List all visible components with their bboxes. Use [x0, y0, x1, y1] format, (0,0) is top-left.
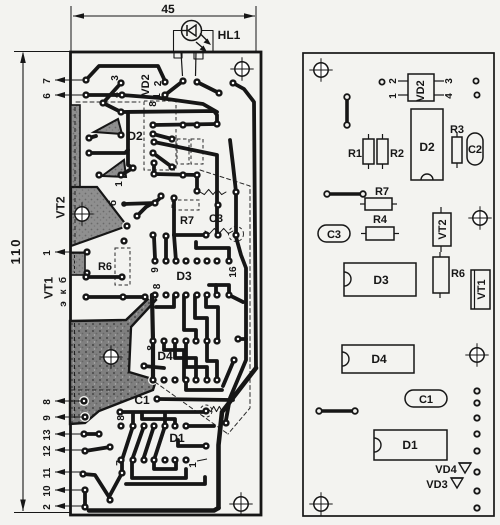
pin arrow 8	[55, 398, 82, 404]
component C1 right	[405, 390, 447, 407]
wire diag to pad	[103, 103, 121, 112]
pin arrow 6	[55, 92, 84, 98]
pour pad clearances	[79, 396, 89, 406]
wire long h111	[121, 111, 217, 124]
wire pin11	[83, 474, 109, 497]
copper pour big (bottom left)	[70, 295, 156, 424]
diode VD3 symbol	[451, 478, 463, 488]
LED HL1 symbol	[182, 21, 212, 53]
svg-text:VT1: VT1	[476, 279, 488, 299]
pads pins 8-2	[81, 399, 113, 510]
dashed edge line 2	[155, 382, 228, 434]
dimension line 45 (top width)	[71, 6, 256, 51]
wire D3 row top	[197, 248, 229, 258]
pin arrow 12	[55, 447, 83, 453]
mount hole crosshair RB bl	[309, 492, 332, 515]
wire D4 s2	[175, 341, 196, 380]
component R1	[363, 139, 374, 164]
svg-text:1: 1	[42, 250, 53, 256]
wire diag V2b	[223, 360, 234, 386]
left board outline	[71, 52, 262, 515]
pads D2 left col	[151, 123, 157, 177]
component VT1 right	[471, 270, 490, 309]
pads D4 row2	[151, 378, 220, 383]
copper triangle 1	[94, 119, 122, 134]
svg-text:VT2: VT2	[54, 196, 68, 218]
component VD2	[408, 74, 434, 101]
svg-text:4: 4	[444, 93, 455, 99]
pads D3 pins 1-8	[153, 293, 232, 298]
wire D3 feed a	[194, 242, 198, 248]
wire row236	[174, 233, 206, 237]
mount hole crosshair RB tl	[309, 58, 332, 81]
dashed outline D2	[144, 101, 176, 170]
mount hole crosshair (big pour)	[99, 345, 122, 368]
pads right column RB	[474, 388, 479, 393]
jumper wire bottom	[320, 409, 354, 413]
pads D1 row1	[119, 424, 189, 429]
wire top right corner	[233, 83, 256, 368]
mount hole crosshair RB r2	[465, 343, 488, 366]
zigzag link 1	[200, 189, 226, 194]
wire D1 right link	[186, 424, 214, 428]
copper pour VT2 area	[71, 187, 127, 246]
wire base b	[121, 201, 127, 207]
wire long diag	[154, 142, 217, 235]
svg-text:1: 1	[152, 93, 163, 99]
svg-text:12: 12	[42, 445, 53, 457]
wire D4 s3	[186, 341, 207, 380]
pads top right RB	[473, 78, 478, 83]
svg-text:VD2: VD2	[140, 74, 152, 95]
svg-text:R7: R7	[180, 215, 194, 227]
wire pin13	[84, 432, 99, 436]
svg-text:VT2: VT2	[437, 219, 449, 239]
svg-text:C3: C3	[327, 229, 341, 241]
pads D4 misc	[142, 364, 147, 369]
svg-text:3: 3	[444, 78, 455, 84]
component C2	[467, 133, 483, 165]
dashed circle C1	[200, 405, 212, 417]
jumper wire vertical	[345, 98, 349, 124]
zigzag link 3	[208, 406, 225, 411]
wire D1 pad link	[178, 440, 203, 446]
wire D4 below	[186, 380, 222, 390]
pads bottom left	[108, 471, 125, 503]
wire D3 s2	[184, 295, 196, 341]
svg-text:13: 13	[42, 429, 53, 441]
pin arrow 7	[55, 77, 84, 83]
wire diag D2b	[153, 153, 172, 167]
svg-text:45: 45	[161, 2, 175, 16]
svg-text:VD2: VD2	[415, 80, 427, 101]
wire VT1 k	[86, 295, 145, 299]
component R2	[377, 139, 388, 164]
component C3 right	[318, 225, 350, 242]
svg-text:э: э	[58, 301, 69, 307]
pads VT1 leads	[84, 275, 148, 300]
svg-text:7: 7	[42, 78, 53, 84]
component D4 right	[342, 345, 414, 373]
dashed edge line 1	[200, 170, 250, 434]
svg-text:11: 11	[42, 467, 53, 478]
component VT2 right	[433, 213, 451, 246]
svg-text:6: 6	[42, 93, 53, 99]
pads D1 out	[204, 421, 229, 449]
svg-text:R6: R6	[98, 261, 112, 273]
svg-text:10: 10	[42, 485, 53, 497]
pads top right	[217, 81, 236, 96]
wire D1 h3	[126, 477, 205, 484]
svg-text:VT1: VT1	[42, 277, 56, 299]
svg-text:D4: D4	[371, 352, 387, 366]
svg-text:HL1: HL1	[218, 28, 241, 42]
svg-text:2: 2	[42, 504, 53, 510]
svg-text:R2: R2	[390, 148, 404, 160]
pads HL1	[181, 79, 200, 85]
dashed outline R6	[115, 248, 130, 285]
svg-text:б: б	[108, 200, 119, 206]
pads D2 misc	[87, 133, 239, 195]
strip dashed overlay	[74, 107, 76, 244]
mount hole crosshair (bottom right)	[229, 492, 252, 515]
wire D4 s4	[207, 341, 217, 380]
wire V chain lower	[226, 237, 246, 420]
wire C1 top	[157, 399, 233, 400]
wire D1 diag	[109, 473, 122, 497]
wire D1 u1	[154, 460, 176, 469]
wire stub left	[89, 150, 128, 153]
svg-text:8: 8	[152, 283, 163, 289]
pads VD2 3 4	[119, 81, 125, 98]
wire diag D2a	[153, 134, 172, 139]
wire V chain upper	[230, 140, 236, 233]
wire D3 s5	[209, 285, 229, 295]
wire C1 bottom	[120, 410, 206, 414]
wire bottom bus	[89, 508, 219, 511]
wire VT1 b	[86, 275, 122, 279]
svg-text:C3: C3	[209, 213, 223, 225]
HL1 outline box	[174, 31, 214, 53]
wire pin6	[86, 95, 217, 112]
svg-text:1: 1	[188, 462, 199, 468]
HL1 lead wires	[181, 52, 183, 76]
svg-text:VD3: VD3	[426, 479, 447, 491]
svg-text:R7: R7	[375, 186, 389, 198]
wire D1 stub up a	[131, 413, 135, 426]
wire row125	[153, 124, 217, 125]
wire D1 stub up b	[163, 413, 167, 426]
wire pin12	[85, 447, 110, 451]
pin arrow 11	[55, 469, 81, 475]
wire drop236	[174, 235, 176, 261]
wire curve	[137, 197, 161, 216]
pads top mid	[101, 80, 168, 115]
pad VD2-2	[379, 79, 384, 84]
wire stub V2	[238, 337, 246, 341]
pin arrow 1	[55, 249, 87, 255]
pads D3 pins 9-16	[153, 259, 232, 264]
wire elbow x128	[128, 114, 133, 168]
wire D4 left lead	[144, 366, 164, 368]
pin arrow 13	[55, 431, 82, 437]
wire VD2 diag	[165, 81, 183, 95]
wire pin10-2	[83, 490, 87, 507]
wire pour column	[152, 295, 153, 380]
wire row175	[154, 174, 197, 191]
wire stub 153	[154, 237, 155, 258]
pads mid cluster	[85, 194, 177, 276]
wire D1 diag4	[154, 426, 165, 460]
pads D1 row2	[119, 458, 189, 463]
right board outline	[303, 53, 494, 516]
copper pour pad square	[71, 253, 85, 275]
svg-text:R1: R1	[348, 148, 362, 160]
svg-text:D2: D2	[127, 129, 143, 143]
component R3	[452, 137, 462, 163]
svg-text:D4: D4	[157, 349, 173, 363]
svg-text:1: 1	[114, 181, 125, 187]
component D3 right	[344, 263, 416, 296]
pin arrow 9	[55, 414, 83, 420]
wire VD2 pin3 diag	[103, 83, 121, 103]
svg-text:8: 8	[146, 345, 157, 351]
copper triangle 2	[102, 160, 126, 177]
pin arrow 10	[55, 487, 83, 493]
component D1 right	[374, 430, 447, 460]
wire D1 u2	[132, 460, 186, 478]
copper pour strip (left edge)	[71, 105, 80, 188]
wire D1 diag1	[122, 426, 133, 460]
dashed outline R7	[172, 200, 199, 210]
pads input 7 6	[84, 78, 89, 98]
svg-text:C1: C1	[419, 394, 433, 406]
wire R7 drop	[172, 198, 176, 235]
VD2 leads	[398, 80, 408, 82]
pads row236	[151, 203, 239, 239]
svg-text:C2: C2	[468, 144, 482, 156]
pin arrow 2	[55, 503, 83, 509]
svg-text:9: 9	[42, 415, 53, 421]
svg-text:D3: D3	[176, 269, 192, 283]
svg-text:D1: D1	[169, 431, 185, 445]
pour VT2 tip clearance	[122, 221, 132, 231]
wire right diagonal	[219, 368, 257, 508]
svg-text:16: 16	[228, 266, 239, 278]
wire D1 left1	[120, 460, 124, 472]
wire D3 s4	[206, 295, 218, 341]
svg-text:D2: D2	[419, 140, 435, 154]
svg-text:б: б	[58, 277, 69, 283]
wire D1 diag2	[132, 426, 144, 460]
wire pin7 arc	[86, 66, 165, 81]
mount hole crosshair RB r1	[468, 206, 491, 229]
wire D3 s1	[156, 295, 174, 307]
svg-text:1: 1	[388, 93, 399, 99]
svg-text:C1: C1	[134, 393, 150, 407]
svg-text:R3: R3	[450, 124, 464, 136]
dashed outline parts near D2	[177, 139, 189, 164]
wire grey tri1 link	[89, 136, 96, 138]
wire diag236	[164, 236, 168, 261]
wire D3 s3	[195, 295, 207, 341]
pour dashed overlay	[71, 389, 127, 391]
wire D4 s1	[164, 341, 184, 380]
wire D1 staple	[142, 413, 175, 426]
dashed circle C3	[229, 227, 244, 242]
mount hole crosshair (top right)	[230, 57, 253, 80]
svg-text:R6: R6	[451, 268, 465, 280]
dashed pour boundary top	[76, 101, 140, 103]
svg-text:D3: D3	[373, 273, 389, 287]
wire D3 to V2	[229, 295, 243, 302]
component R7	[365, 198, 392, 210]
wire D1 diag3	[143, 426, 154, 460]
svg-text:2: 2	[388, 78, 399, 84]
svg-text:110: 110	[8, 238, 23, 265]
wire HL1 to pad	[197, 82, 219, 93]
zigzag link 2	[205, 228, 233, 233]
dimension line 110 (left height)	[14, 52, 70, 513]
component D2	[411, 109, 443, 180]
svg-text:D1: D1	[402, 438, 418, 452]
svg-text:8: 8	[116, 415, 127, 421]
svg-text:8: 8	[148, 101, 159, 107]
svg-text:R4: R4	[373, 214, 388, 226]
pads right col mid	[232, 337, 241, 363]
jumper wire R7	[329, 192, 362, 196]
pads C1	[118, 397, 209, 415]
svg-text:9: 9	[150, 267, 161, 273]
component R6 right	[433, 257, 449, 293]
component R4	[366, 227, 394, 240]
pads D4 row1	[151, 339, 220, 344]
pads D2 right col	[170, 122, 220, 194]
wire D2 col	[152, 163, 156, 174]
diode VD4 symbol	[459, 463, 471, 473]
mount hole crosshair (VT2 pour)	[70, 202, 93, 225]
svg-text:8: 8	[42, 399, 53, 405]
wire tri2 link	[121, 168, 133, 175]
svg-text:VD4: VD4	[435, 464, 457, 476]
